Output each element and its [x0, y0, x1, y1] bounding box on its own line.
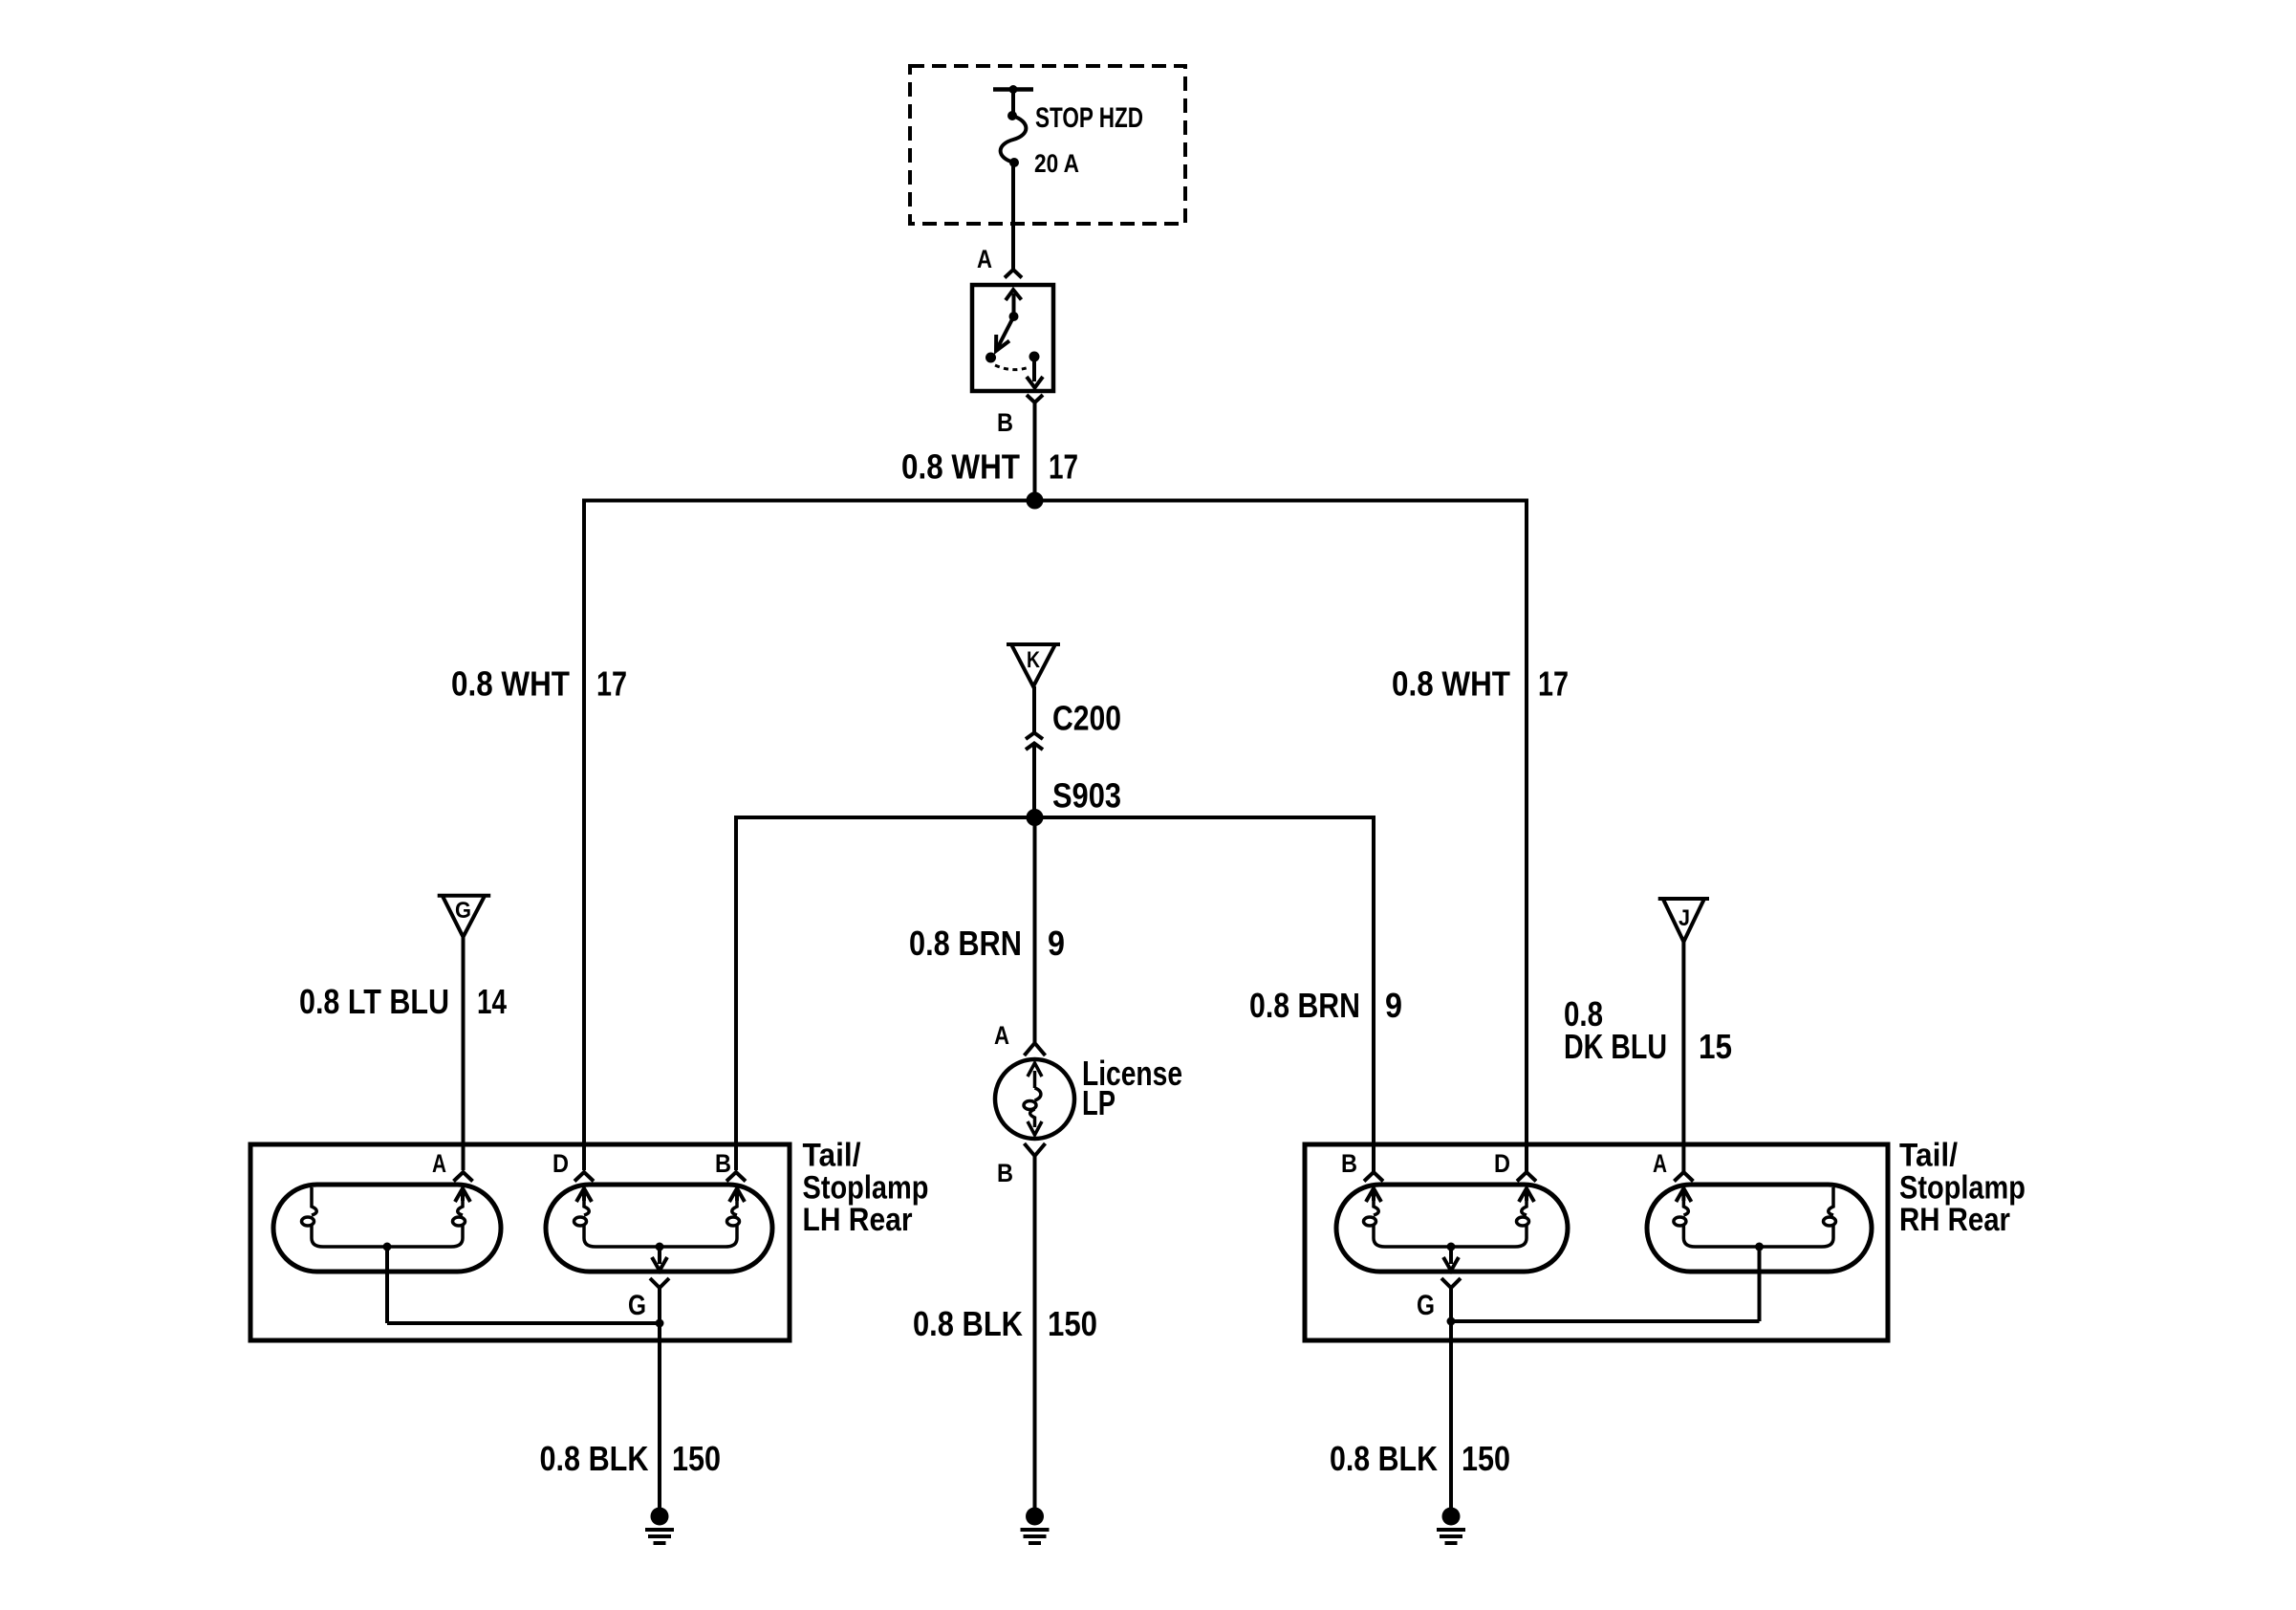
svg-text:A: A — [1653, 1149, 1667, 1178]
svg-text:S903: S903 — [1052, 776, 1121, 816]
LH lamp assembly box — [250, 1144, 790, 1340]
svg-text:A: A — [994, 1021, 1009, 1050]
svg-text:D: D — [1494, 1149, 1510, 1178]
switch dashed travel arc — [995, 365, 1030, 370]
fuse STOP HZD 20A — [1007, 111, 1017, 120]
svg-text:Stoplamp: Stoplamp — [1899, 1169, 2025, 1206]
LH pin G chevron — [650, 1278, 669, 1288]
svg-text:STOP HZD: STOP HZD — [1035, 102, 1143, 134]
svg-text:LH Rear: LH Rear — [803, 1202, 913, 1238]
svg-text:D: D — [552, 1149, 569, 1178]
node RH G junction — [1447, 1317, 1456, 1326]
RH pin D chevron — [1517, 1172, 1536, 1182]
svg-text:Stoplamp: Stoplamp — [803, 1169, 929, 1206]
LH tail bulb (A) — [273, 1185, 501, 1323]
LH pin D chevron — [574, 1172, 594, 1182]
node bus dot — [1009, 85, 1018, 94]
svg-text:14: 14 — [477, 982, 507, 1021]
wire LH G pin stem — [658, 1288, 661, 1323]
svg-text:Tail/: Tail/ — [1899, 1137, 1959, 1173]
svg-text:9: 9 — [1048, 924, 1065, 963]
RH internal ground bus — [1451, 1319, 1760, 1323]
svg-text:G: G — [455, 898, 471, 924]
license lamp filament — [1024, 1063, 1042, 1135]
RH pin G chevron — [1441, 1278, 1461, 1288]
svg-text:0.8 BLK: 0.8 BLK — [540, 1439, 649, 1478]
svg-text:17: 17 — [1049, 447, 1078, 487]
fuse block dashed box — [910, 66, 1185, 224]
svg-text:B: B — [715, 1149, 731, 1178]
wire C200 to S903 — [1032, 744, 1036, 818]
wire RH G pin stem — [1449, 1288, 1453, 1321]
wire — [1011, 90, 1015, 117]
bus bar — [993, 87, 1033, 92]
svg-text:9: 9 — [1385, 986, 1402, 1025]
switch moving arm arrow — [998, 316, 1014, 347]
switch pivot dot — [1009, 312, 1019, 321]
svg-text:0.8 WHT: 0.8 WHT — [451, 664, 570, 704]
svg-text:B: B — [1341, 1149, 1357, 1178]
svg-text:C200: C200 — [1052, 699, 1121, 738]
svg-text:0.8 WHT: 0.8 WHT — [901, 447, 1020, 487]
pin A connector chevron — [1005, 270, 1022, 278]
svg-text:RH Rear: RH Rear — [1899, 1202, 2010, 1238]
svg-text:17: 17 — [1538, 664, 1569, 704]
wire RH ground — [1449, 1321, 1453, 1508]
svg-text:0.8 WHT: 0.8 WHT — [1392, 664, 1510, 704]
license lamp pin B chevron — [1025, 1143, 1046, 1156]
RH pin A chevron — [1674, 1172, 1693, 1182]
label Tail/Stoplamp RH Rear — [1899, 1137, 2025, 1238]
splice junction top — [1027, 492, 1044, 510]
pin B connector chevron — [1027, 395, 1043, 402]
svg-text:K: K — [1027, 647, 1041, 673]
switch contact dot left — [986, 353, 996, 363]
license lamp bulb circle — [995, 1059, 1074, 1139]
LH pin B chevron — [726, 1172, 746, 1182]
wire LH ground — [658, 1323, 661, 1508]
svg-text:A: A — [977, 245, 992, 273]
wire K to C200 — [1032, 686, 1036, 732]
wire fuse to switch pin A — [1011, 163, 1015, 269]
connector C200 chevrons — [1026, 733, 1043, 740]
svg-text:20 A: 20 A — [1034, 149, 1079, 178]
wire switch B down — [1033, 402, 1037, 501]
RH tail bulb (A) — [1647, 1185, 1872, 1321]
svg-text:150: 150 — [672, 1439, 721, 1478]
RH lamp assembly box — [1305, 1144, 1888, 1340]
ground symbol center — [1021, 1508, 1050, 1544]
svg-text:150: 150 — [1462, 1439, 1510, 1478]
wire J to RH pin A — [1681, 942, 1685, 1172]
RH stop bulb (B-D) — [1336, 1185, 1568, 1272]
wire horizontal rail — [584, 501, 1527, 1173]
svg-text:15: 15 — [1699, 1027, 1732, 1066]
wire S903 rail — [736, 817, 1374, 1172]
svg-text:LP: LP — [1082, 1083, 1116, 1122]
svg-text:0.8 BRN: 0.8 BRN — [1249, 986, 1360, 1025]
switch down arrow to pin B — [1032, 357, 1036, 381]
node LH G junction — [656, 1319, 664, 1328]
connector J triangle — [1658, 899, 1709, 942]
wire license B to ground — [1033, 1156, 1037, 1508]
svg-text:Tail/: Tail/ — [803, 1137, 862, 1173]
splice S903 dot — [1027, 809, 1044, 826]
switch arrow up — [1012, 294, 1016, 316]
connector G triangle — [438, 896, 491, 937]
svg-text:0.8 BLK: 0.8 BLK — [913, 1304, 1023, 1343]
LH stop bulb (D-B) — [546, 1185, 772, 1272]
license lamp pin A chevron — [1025, 1043, 1046, 1055]
LH internal ground bus — [387, 1321, 660, 1325]
svg-text:A: A — [432, 1149, 446, 1178]
svg-text:17: 17 — [596, 664, 627, 704]
wire G to LH pin A — [462, 937, 466, 1170]
ground symbol LH — [645, 1508, 674, 1544]
svg-text:G: G — [628, 1290, 646, 1321]
svg-text:150: 150 — [1048, 1304, 1097, 1343]
ground symbol RH — [1437, 1508, 1465, 1544]
connector K triangle — [1007, 644, 1060, 686]
RH pin B chevron — [1364, 1172, 1383, 1182]
svg-text:0.8 BLK: 0.8 BLK — [1330, 1439, 1438, 1478]
switch contact dot right — [1029, 352, 1040, 362]
stop lamp switch box — [972, 285, 1053, 391]
svg-text:0.8 LT BLU: 0.8 LT BLU — [299, 982, 449, 1021]
svg-text:0.8 BRN: 0.8 BRN — [909, 924, 1022, 963]
label Tail/Stoplamp LH Rear — [803, 1137, 929, 1238]
wire S903 down to license lamp — [1033, 817, 1037, 1042]
svg-text:J: J — [1679, 905, 1690, 931]
svg-text:DK BLU: DK BLU — [1564, 1027, 1667, 1066]
svg-text:B: B — [997, 408, 1013, 437]
svg-text:B: B — [997, 1159, 1013, 1187]
LH pin A chevron — [454, 1172, 473, 1182]
svg-text:G: G — [1417, 1290, 1435, 1321]
